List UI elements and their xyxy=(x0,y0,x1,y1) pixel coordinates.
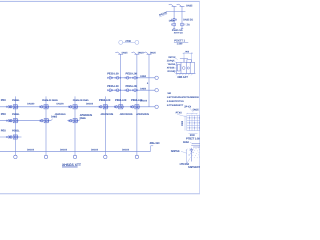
title underline 1 xyxy=(62,166,78,168)
svg-text:3.PTSJBZHSYT: 3.PTSJBZHSYT xyxy=(167,104,184,107)
wire: detail pipe2 end tick xyxy=(181,28,183,30)
svg-text:DN65: DN65 xyxy=(80,117,87,120)
dim: grid left xyxy=(184,115,186,130)
svg-text:DN25: DN25 xyxy=(138,51,144,54)
riser ZL-6 tall xyxy=(136,54,138,151)
svg-text:DN100: DN100 xyxy=(27,103,35,106)
wire: detail pipe1 end tick xyxy=(173,28,175,30)
svg-text:2.XHSXTSYTGS: 2.XHSXTSYTGS xyxy=(167,100,184,103)
grid: sprinkler heads xyxy=(189,117,200,128)
svg-text:DN25: DN25 xyxy=(186,5,193,8)
wire: upper branch row 1 xyxy=(107,77,154,79)
wire: axis dimension line xyxy=(123,41,135,43)
riser ZL-5 tall xyxy=(120,54,122,107)
leader: pump labels xyxy=(174,57,178,71)
wire: main trunk pipe xyxy=(0,106,155,108)
svg-text:PEX: PEX xyxy=(1,113,6,116)
svg-text:JZDXSXHS: JZDXSXHS xyxy=(136,113,149,116)
dim: pump detail vertical 1 xyxy=(183,53,185,63)
svg-text:PE65L: PE65L xyxy=(12,99,20,102)
axis bubble B xyxy=(135,40,139,44)
leader: drain top xyxy=(190,142,193,143)
valve V23 xyxy=(125,89,130,92)
title: detail underline xyxy=(174,41,188,43)
svg-text:DN50: DN50 xyxy=(140,75,146,78)
svg-text:DN100: DN100 xyxy=(27,148,35,151)
dim: pump detail top tie xyxy=(183,52,193,54)
svg-text:DN25 ZG: DN25 ZG xyxy=(183,18,193,21)
svg-text:2700: 2700 xyxy=(125,40,131,43)
svg-text:1.BTYSXGPHJZXXTSJSMXGD: 1.BTYSXGPHJZXXTSJSMXGD xyxy=(167,96,199,99)
valve assembly L2 xyxy=(40,119,49,123)
node: branch row 2 terminal xyxy=(155,89,158,92)
leader: grid top a xyxy=(190,108,194,112)
wire: segment2 end tick xyxy=(79,119,81,121)
title underline 2 xyxy=(62,167,78,169)
svg-text:PEX: PEX xyxy=(1,99,6,102)
valve assembly K5 xyxy=(115,105,124,109)
valve assembly K2 xyxy=(40,105,49,109)
svg-text:DN50: DN50 xyxy=(183,141,190,144)
leader: level note xyxy=(159,14,167,17)
frame right border xyxy=(198,1,200,194)
svg-text:PTXX: PTXX xyxy=(176,112,183,115)
valve assembly K0 circle xyxy=(7,106,11,108)
valve assembly L0 circle xyxy=(7,120,11,122)
dim: drain vertical xyxy=(186,149,188,164)
drain funnel xyxy=(190,149,193,152)
valve V13 xyxy=(125,77,130,80)
valve detail D2 xyxy=(171,23,175,26)
valve V11 xyxy=(108,77,113,80)
svg-text:PE25-L09: PE25-L09 xyxy=(126,73,138,76)
svg-text:PE65-L09: PE65-L09 xyxy=(131,99,143,102)
node: riser1 bottom bubble xyxy=(14,151,16,155)
wire: floor3 branch xyxy=(0,136,22,138)
node: riser6 bottom bubble xyxy=(136,151,138,155)
dim: grid slashes xyxy=(186,113,197,114)
svg-text:JZDXSXHS: JZDXSXHS xyxy=(120,113,133,116)
svg-text:DN25: DN25 xyxy=(193,109,200,112)
valve assembly L3 xyxy=(69,119,78,123)
grid: verticals xyxy=(187,115,200,130)
svg-text:PE25-L09: PE25-L09 xyxy=(126,85,138,88)
svg-text:DN25: DN25 xyxy=(150,51,156,54)
node: riser2 bottom bubble xyxy=(45,151,47,155)
riser ZL-2 xyxy=(45,96,47,151)
valve assembly K4 xyxy=(99,105,108,109)
wire: segment1 end tick xyxy=(51,119,53,121)
svg-text:3000: 3000 xyxy=(181,120,184,126)
dim: grid top chain xyxy=(187,113,197,115)
svg-text:DN25: DN25 xyxy=(169,20,175,23)
wire: bottom main pipe xyxy=(0,150,151,152)
riser ZL-3 xyxy=(74,96,76,151)
pump base hatch xyxy=(175,74,196,76)
svg-text:SDPSK: SDPSK xyxy=(171,150,180,153)
dim: pump detail vertical 2 xyxy=(191,53,193,63)
node: trunk end terminal xyxy=(155,105,158,108)
svg-text:DN100: DN100 xyxy=(60,148,68,151)
valve V21 xyxy=(108,89,113,92)
svg-text:PE65L: PE65L xyxy=(12,130,20,133)
valve detail D3 xyxy=(181,23,185,26)
svg-text:PE65-L09: PE65-L09 xyxy=(115,99,127,102)
valve assembly K3 xyxy=(69,105,78,109)
valve V22 xyxy=(115,89,120,92)
svg-text:PE25-L09: PE25-L09 xyxy=(107,73,119,76)
svg-text:XFB AZT: XFB AZT xyxy=(177,76,188,79)
valve assembly L1 xyxy=(9,119,18,123)
valve assembly M0 circle xyxy=(7,136,11,138)
svg-text:DN100: DN100 xyxy=(86,103,94,106)
leader: drain left xyxy=(181,151,187,153)
svg-text:DN65: DN65 xyxy=(51,116,58,119)
svg-text:PTBZT 1:50: PTBZT 1:50 xyxy=(186,137,200,140)
gravel speckle xyxy=(189,148,200,158)
svg-text:SSPSKDYT: SSPSKDYT xyxy=(188,166,200,169)
svg-text:XHSGS XTT: XHSGS XTT xyxy=(62,163,82,167)
wire: upper branch row 2 xyxy=(107,89,154,91)
vent cap riser ZL-5 xyxy=(115,52,123,54)
svg-text:ZG: ZG xyxy=(187,24,190,27)
valve assembly K1 xyxy=(9,105,18,109)
riser ZL-4 xyxy=(104,96,106,151)
frame top border xyxy=(0,0,200,2)
svg-text:RXJHQ: RXJHQ xyxy=(168,70,176,73)
wire: detail riser pipe 2 xyxy=(181,6,183,28)
svg-text:JZDXSXHS: JZDXSXHS xyxy=(100,113,113,116)
node: riser4 bottom bubble xyxy=(104,151,106,155)
riser ZL-7 right xyxy=(148,54,150,107)
svg-text:SM: SM xyxy=(167,92,170,95)
grid: horizontals xyxy=(187,115,200,130)
leader: grid upper left xyxy=(177,114,186,116)
valve V24 xyxy=(133,89,138,92)
dim: grid bottom xyxy=(189,132,198,134)
svg-text:DN25: DN25 xyxy=(122,51,128,54)
svg-text:XSYT GS: XSYT GS xyxy=(174,31,183,34)
riser ZL-1 xyxy=(14,96,16,151)
vent cap riser ZL-7 xyxy=(144,52,152,54)
svg-text:JRG-150: JRG-150 xyxy=(149,142,160,145)
valve assembly K6 xyxy=(131,105,140,109)
drain pipe xyxy=(191,148,193,162)
svg-text:DN100: DN100 xyxy=(122,148,130,151)
sheet background xyxy=(0,0,200,200)
valve V14 xyxy=(133,77,138,80)
wire: floor2 branch segment 2 xyxy=(67,120,79,122)
svg-text:PE65L: PE65L xyxy=(12,113,20,116)
wire: floor2 branch segment 1 xyxy=(0,120,51,122)
wire: bottom main end elbow xyxy=(151,146,154,152)
leader: drain bottom 1 xyxy=(187,158,190,163)
wire: detail level line xyxy=(166,11,185,13)
axis bubble A xyxy=(119,40,123,44)
drain tank lines xyxy=(191,144,200,147)
valve V12 xyxy=(115,77,120,80)
wire: detail riser pipe 1 xyxy=(173,6,175,28)
vent cap riser ZL-6 xyxy=(132,52,140,54)
dim: slash ticks xyxy=(183,53,192,54)
svg-text:PEX: PEX xyxy=(1,130,6,133)
valve detail D1 xyxy=(172,18,177,21)
node: riser3 bottom bubble xyxy=(74,151,76,155)
svg-text:DN100: DN100 xyxy=(57,103,65,106)
svg-text:1:100: 1:100 xyxy=(177,42,183,45)
valve assembly M1 xyxy=(9,135,18,139)
svg-text:XFSSB: XFSSB xyxy=(167,67,175,70)
svg-text:XSTGF: XSTGF xyxy=(168,56,176,59)
frame bottom border xyxy=(0,193,200,195)
pump unit body xyxy=(177,59,195,74)
svg-text:DN100: DN100 xyxy=(91,148,99,151)
vent cap detail pipe1 xyxy=(169,4,177,6)
svg-text:ZP-XX: ZP-XX xyxy=(184,106,191,109)
svg-text:PE65-L09: PE65-L09 xyxy=(99,99,111,102)
svg-text:PE25-L09: PE25-L09 xyxy=(107,85,119,88)
leader: drain mid diagonal xyxy=(188,152,194,155)
node: branch row 1 terminal xyxy=(155,76,158,79)
svg-text:DN50: DN50 xyxy=(140,87,146,90)
vent cap detail pipe2 xyxy=(177,4,185,6)
